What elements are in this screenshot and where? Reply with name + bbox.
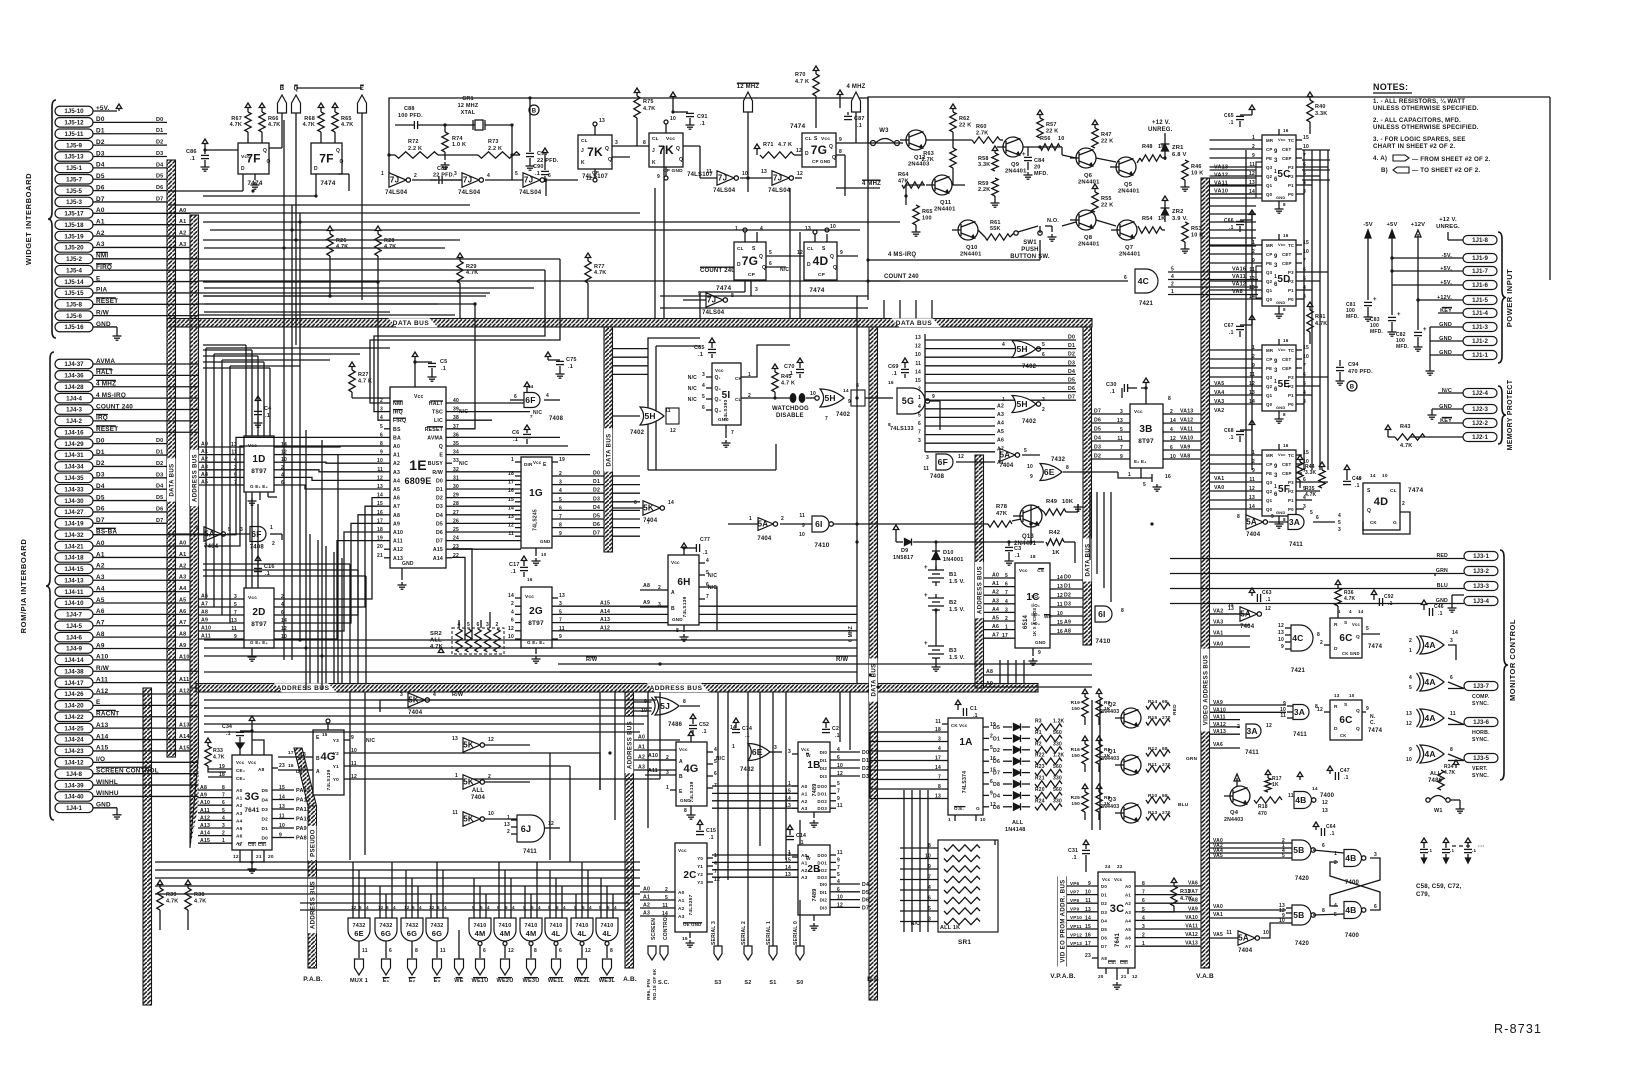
svg-text:Vcc: Vcc — [821, 136, 830, 142]
svg-text:Y2: Y2 — [697, 872, 703, 877]
svg-text:7400: 7400 — [1345, 933, 1360, 939]
svg-text:E₂ E₄: E₂ E₄ — [1134, 459, 1147, 464]
svg-text:R46: R46 — [1191, 164, 1202, 170]
svg-text:5: 5 — [515, 171, 518, 177]
svg-text:4.7K: 4.7K — [230, 122, 242, 128]
svg-text:Q1: Q1 — [1266, 393, 1273, 398]
svg-text:1J2-1: 1J2-1 — [1472, 434, 1488, 441]
svg-text:VA5: VA5 — [1213, 853, 1223, 859]
svg-text:BS: BS — [393, 427, 401, 433]
svg-text:1J4-24: 1J4-24 — [64, 737, 84, 744]
svg-text:1J4-36: 1J4-36 — [64, 373, 84, 380]
svg-text:3: 3 — [1274, 368, 1278, 374]
svg-text:A9: A9 — [643, 600, 650, 606]
svg-text:Q: Q — [1356, 708, 1360, 714]
svg-text:1.5 V.: 1.5 V. — [949, 655, 965, 661]
svg-text:HALT: HALT — [429, 401, 444, 407]
svg-text:DO3: DO3 — [817, 806, 827, 811]
svg-text:8: 8 — [683, 699, 686, 705]
svg-text:C92: C92 — [1384, 594, 1394, 600]
svg-text:W1: W1 — [1434, 808, 1443, 814]
svg-text:74LS04: 74LS04 — [713, 188, 736, 194]
svg-text:C85: C85 — [694, 345, 705, 351]
svg-text:8: 8 — [1317, 632, 1320, 638]
svg-text:D1: D1 — [1068, 343, 1075, 349]
svg-text:A1: A1 — [393, 453, 400, 459]
svg-text:6: 6 — [714, 771, 717, 777]
svg-text:13: 13 — [452, 736, 458, 742]
svg-text:6: 6 — [1274, 387, 1278, 393]
svg-text:A0: A0 — [236, 788, 243, 794]
svg-text:P0: P0 — [1288, 192, 1294, 197]
svg-text:.1: .1 — [1450, 848, 1454, 853]
svg-text:A0: A0 — [801, 853, 808, 859]
svg-text:PA10: PA10 — [296, 817, 310, 823]
svg-text:COUNT 240: COUNT 240 — [700, 268, 735, 274]
svg-text:Q: Q — [833, 265, 837, 271]
svg-text:— FROM SHEET #2 OF 2.: — FROM SHEET #2 OF 2. — [1412, 156, 1491, 163]
svg-text:DI0: DI0 — [820, 882, 828, 887]
svg-text:A1: A1 — [801, 860, 808, 866]
svg-text:R21: R21 — [1035, 776, 1045, 782]
svg-text:1. - ALL RESISTORS, ¼ WATT: 1. - ALL RESISTORS, ¼ WATT — [1373, 98, 1465, 105]
svg-text:R39: R39 — [166, 892, 177, 898]
svg-text:N/C: N/C — [688, 375, 697, 381]
svg-text:A7: A7 — [179, 620, 186, 626]
svg-text:19: 19 — [559, 457, 565, 463]
svg-text:R72: R72 — [408, 139, 419, 145]
svg-text:1: 1 — [948, 817, 951, 823]
svg-text:1J4-13: 1J4-13 — [64, 577, 84, 584]
svg-text:+: + — [1397, 312, 1401, 318]
svg-text:21: 21 — [1121, 974, 1127, 979]
svg-text:9: 9 — [932, 394, 935, 400]
svg-text:PA13: PA13 — [296, 788, 310, 794]
svg-text:9: 9 — [1038, 650, 1041, 656]
svg-text:7: 7 — [530, 414, 533, 419]
svg-text:CET: CET — [1282, 147, 1291, 152]
svg-text:6F: 6F — [938, 457, 948, 467]
svg-text:7408: 7408 — [930, 474, 945, 480]
svg-text:.1: .1 — [709, 835, 714, 841]
svg-text:1: 1 — [1274, 379, 1277, 385]
svg-text:2: 2 — [414, 173, 417, 179]
svg-text:Q0: Q0 — [1266, 402, 1273, 407]
svg-text:D5: D5 — [156, 174, 163, 180]
svg-text:A3: A3 — [1125, 910, 1131, 915]
svg-text:D4: D4 — [156, 162, 164, 168]
svg-text:2: 2 — [488, 774, 491, 780]
svg-text:VA11: VA11 — [1180, 427, 1193, 433]
svg-text:9: 9 — [1274, 359, 1278, 365]
svg-text:A5: A5 — [393, 487, 400, 493]
svg-text:4.7K: 4.7K — [1305, 492, 1317, 498]
svg-text:A3: A3 — [801, 875, 808, 881]
svg-text:Q: Q — [830, 254, 834, 260]
svg-text:5K: 5K — [463, 778, 474, 787]
svg-text:2: 2 — [781, 516, 784, 522]
svg-text:A14: A14 — [433, 556, 443, 562]
svg-text:2N4401: 2N4401 — [934, 207, 956, 213]
svg-text:13: 13 — [915, 335, 921, 341]
svg-text:.1: .1 — [1266, 597, 1271, 603]
svg-text:R54: R54 — [1142, 216, 1153, 222]
svg-text:B: B — [532, 109, 537, 115]
svg-text:16: 16 — [888, 380, 894, 386]
svg-text:D2: D2 — [1068, 352, 1075, 358]
svg-text:4 MS-IRQ: 4 MS-IRQ — [888, 252, 916, 258]
svg-text:Q₃: Q₃ — [715, 397, 722, 403]
svg-text:VA9: VA9 — [1180, 445, 1190, 451]
svg-text:R1: R1 — [1035, 730, 1042, 736]
svg-text:R73: R73 — [488, 139, 499, 145]
svg-text:4.7K: 4.7K — [268, 122, 280, 128]
svg-text:14: 14 — [915, 369, 921, 375]
svg-text:DI1: DI1 — [820, 758, 828, 763]
svg-text:.1: .1 — [265, 413, 270, 419]
svg-text:11: 11 — [1450, 711, 1456, 717]
svg-text:6G: 6G — [407, 929, 417, 938]
svg-text:VA12: VA12 — [1185, 932, 1198, 938]
svg-text:MR: MR — [1266, 243, 1274, 248]
svg-text:C58, C59, C72,: C58, C59, C72, — [1416, 883, 1462, 890]
svg-text:UNREG.: UNREG. — [1148, 127, 1173, 133]
svg-text:A2: A2 — [643, 903, 650, 909]
svg-text:VA8: VA8 — [1188, 898, 1198, 904]
svg-text:10: 10 — [670, 116, 676, 122]
svg-text:CK: CK — [1340, 733, 1346, 738]
svg-text:R9: R9 — [1104, 700, 1111, 706]
svg-text:12: 12 — [351, 905, 357, 910]
svg-text:4: 4 — [1349, 609, 1352, 614]
svg-text:5A: 5A — [758, 520, 769, 529]
svg-text:1J4-27: 1J4-27 — [64, 509, 84, 516]
svg-text:E₁: E₁ — [383, 978, 390, 984]
svg-text:8: 8 — [1283, 517, 1286, 522]
svg-text:Q3: Q3 — [1266, 270, 1273, 275]
svg-text:Y2: Y2 — [333, 751, 339, 757]
svg-text:1J5-14: 1J5-14 — [64, 279, 84, 286]
svg-text:A8: A8 — [201, 610, 208, 616]
svg-text:5B: 5B — [1293, 910, 1304, 920]
svg-text:Q0: Q0 — [1266, 192, 1273, 197]
svg-text:.1: .1 — [857, 123, 862, 129]
svg-text:10: 10 — [1058, 136, 1065, 142]
svg-text:6: 6 — [1322, 843, 1325, 849]
svg-text:Q: Q — [1356, 726, 1360, 732]
svg-text:A3: A3 — [179, 575, 186, 581]
svg-text:D8: D8 — [993, 782, 1000, 788]
svg-text:E: E — [439, 453, 443, 459]
svg-text:3: 3 — [400, 692, 403, 698]
svg-text:VA12: VA12 — [1232, 282, 1246, 288]
svg-text:Q: Q — [676, 146, 680, 152]
svg-text:N/C: N/C — [688, 397, 697, 403]
svg-text:.1: .1 — [703, 550, 708, 556]
svg-text:1: 1 — [918, 395, 921, 401]
svg-text:3: 3 — [788, 749, 791, 755]
svg-text:D5: D5 — [436, 521, 443, 527]
svg-text:MFD.: MFD. — [1370, 329, 1383, 335]
svg-text:D4: D4 — [862, 882, 869, 888]
svg-text:23: 23 — [279, 763, 285, 769]
svg-text:8: 8 — [1066, 465, 1069, 471]
svg-text:C75: C75 — [566, 357, 577, 363]
svg-text:CR1: CR1 — [462, 96, 474, 102]
svg-text:J: J — [581, 148, 584, 154]
svg-text:10 K: 10 K — [1191, 233, 1203, 239]
svg-text:.1: .1 — [702, 729, 707, 735]
svg-text:13: 13 — [805, 226, 811, 232]
svg-text:B1: B1 — [949, 572, 957, 578]
svg-text:S: S — [1367, 488, 1371, 494]
svg-text:1: 1 — [1274, 484, 1277, 490]
svg-text:PA12: PA12 — [296, 798, 310, 804]
svg-text:A1: A1 — [801, 791, 808, 797]
svg-text:E₂: E₂ — [409, 978, 416, 984]
svg-text:A2: A2 — [236, 803, 243, 809]
svg-text:7411: 7411 — [523, 849, 537, 855]
svg-text:.1: .1 — [1015, 553, 1020, 559]
svg-text:— TO SHEET #2 OF 2.: — TO SHEET #2 OF 2. — [1412, 167, 1480, 174]
svg-text:MR: MR — [1266, 453, 1274, 458]
svg-text:12: 12 — [714, 877, 720, 883]
svg-text:GND: GND — [540, 539, 550, 544]
svg-text:R40: R40 — [1315, 104, 1326, 110]
svg-text:VA10: VA10 — [1180, 436, 1193, 442]
svg-text:A2: A2 — [801, 799, 808, 805]
svg-text:D7: D7 — [1068, 395, 1075, 401]
svg-text:Y3: Y3 — [333, 738, 339, 744]
svg-text:S.C.: S.C. — [658, 980, 670, 986]
svg-text:E₃: E₃ — [434, 978, 441, 984]
svg-text:Q2: Q2 — [1266, 279, 1273, 284]
svg-text:CET: CET — [1282, 462, 1291, 467]
svg-text:A8: A8 — [393, 513, 400, 519]
svg-text:1J4-9: 1J4-9 — [66, 646, 82, 653]
svg-text:12: 12 — [958, 454, 964, 460]
svg-text:A15: A15 — [200, 838, 210, 844]
svg-text:16: 16 — [1165, 474, 1171, 480]
svg-text:R25: R25 — [1071, 795, 1081, 801]
svg-text:D0: D0 — [1101, 884, 1107, 889]
svg-text:R15: R15 — [1148, 715, 1158, 721]
svg-text:1K: 1K — [1104, 753, 1111, 759]
svg-text:D4: D4 — [993, 793, 1000, 799]
svg-text:11: 11 — [362, 948, 368, 954]
svg-text:D4: D4 — [1094, 436, 1101, 442]
svg-text:7411: 7411 — [1289, 542, 1303, 548]
svg-text:E: E — [316, 735, 320, 741]
svg-text:Vcc: Vcc — [1278, 452, 1286, 457]
svg-text:4.7K: 4.7K — [1400, 443, 1412, 449]
svg-text:ZR2: ZR2 — [1172, 209, 1184, 215]
svg-text:D.B: D.B — [867, 976, 879, 983]
svg-text:A7: A7 — [393, 504, 400, 510]
svg-text:.1: .1 — [698, 352, 703, 358]
svg-text:D4: D4 — [1068, 369, 1075, 375]
svg-text:2N4403: 2N4403 — [1224, 817, 1243, 823]
svg-text:7474: 7474 — [1408, 487, 1423, 494]
svg-text:16: 16 — [1283, 128, 1289, 133]
svg-text:D3: D3 — [261, 807, 268, 813]
svg-text:S0: S0 — [796, 980, 803, 986]
svg-text:1J5-9: 1J5-9 — [66, 142, 82, 149]
svg-text:6J: 6J — [521, 824, 531, 834]
svg-text:D6: D6 — [1094, 418, 1101, 424]
svg-text:A3: A3 — [236, 811, 243, 817]
svg-text:4: 4 — [444, 905, 447, 910]
svg-text:R10: R10 — [1148, 793, 1158, 799]
svg-text:A0: A0 — [1125, 884, 1131, 889]
svg-text:WE: WE — [454, 978, 463, 984]
svg-text:DI2: DI2 — [820, 898, 828, 903]
svg-text:9: 9 — [837, 857, 840, 863]
svg-text:7474: 7474 — [809, 287, 824, 294]
svg-text:DI3: DI3 — [820, 905, 828, 910]
svg-text:12: 12 — [1406, 721, 1412, 727]
svg-text:D9: D9 — [901, 548, 908, 554]
svg-text:A6: A6 — [393, 496, 400, 502]
svg-text:A0: A0 — [638, 735, 645, 741]
svg-text:1J5-2: 1J5-2 — [66, 256, 82, 263]
svg-text:Q0: Q0 — [1266, 507, 1273, 512]
svg-text:PE: PE — [1266, 261, 1272, 266]
svg-text:D6: D6 — [1101, 936, 1107, 941]
svg-text:1A: 1A — [959, 737, 972, 748]
svg-text:A10: A10 — [648, 753, 658, 759]
svg-text:74LS04: 74LS04 — [768, 188, 791, 194]
svg-text:3: 3 — [1450, 638, 1453, 644]
svg-text:A14: A14 — [200, 831, 210, 837]
svg-text:1J5-6: 1J5-6 — [66, 313, 82, 320]
svg-text:PUSH: PUSH — [1021, 247, 1038, 253]
svg-text:A0: A0 — [201, 442, 208, 448]
svg-text:4M: 4M — [475, 929, 486, 938]
svg-text:14: 14 — [668, 500, 674, 506]
svg-text:7420: 7420 — [1295, 876, 1310, 882]
svg-text:R42: R42 — [1049, 530, 1060, 536]
svg-text:3C: 3C — [1110, 903, 1124, 915]
svg-text:I/O₃: I/O₃ — [1031, 612, 1040, 617]
svg-text:ALL: ALL — [472, 788, 484, 794]
svg-text:10: 10 — [1382, 473, 1388, 479]
svg-text:1J4-33: 1J4-33 — [64, 486, 84, 493]
svg-text:WE2U: WE2U — [497, 978, 514, 984]
svg-text:A5: A5 — [179, 597, 186, 603]
svg-text:D7: D7 — [1094, 409, 1101, 415]
svg-text:4L: 4L — [577, 929, 586, 938]
svg-text:4.7K: 4.7K — [166, 899, 178, 905]
svg-text:BLU: BLU — [1178, 802, 1189, 808]
svg-text:6F: 6F — [251, 529, 261, 539]
svg-text:CL: CL — [1390, 488, 1397, 494]
svg-text:5A: 5A — [1238, 934, 1249, 943]
svg-text:.1: .1 — [1072, 855, 1077, 861]
svg-text:3: 3 — [1274, 158, 1278, 164]
svg-text:20: 20 — [1034, 165, 1041, 171]
svg-text:4: 4 — [918, 404, 921, 410]
svg-text:6: 6 — [389, 948, 392, 954]
svg-text:GRN: GRN — [1186, 756, 1198, 762]
svg-text:1J4-18: 1J4-18 — [64, 555, 84, 562]
svg-text:SERIAL 1: SERIAL 1 — [766, 921, 772, 945]
svg-text:-5V: -5V — [1363, 222, 1373, 228]
svg-text:C15: C15 — [706, 828, 716, 834]
svg-text:W3: W3 — [879, 128, 889, 134]
svg-text:VA1: VA1 — [1213, 912, 1223, 918]
svg-text:.1: .1 — [511, 569, 516, 575]
svg-text:Vcc: Vcc — [236, 760, 245, 765]
svg-text:6I: 6I — [815, 519, 823, 529]
svg-text:D0: D0 — [156, 438, 163, 444]
svg-text:1J1-2: 1J1-2 — [1472, 338, 1488, 345]
svg-text:3: 3 — [486, 622, 489, 628]
svg-text:CP: CP — [1266, 252, 1273, 257]
svg-text:7474: 7474 — [320, 180, 335, 187]
svg-text:CEP: CEP — [1282, 471, 1292, 476]
svg-text:10: 10 — [1278, 637, 1284, 643]
svg-text:1J5-18: 1J5-18 — [64, 222, 84, 229]
svg-text:4A: 4A — [1424, 713, 1435, 723]
svg-text:18: 18 — [1030, 554, 1036, 560]
svg-text:16: 16 — [1283, 443, 1289, 448]
svg-text:5: 5 — [1409, 685, 1412, 691]
svg-text:P3: P3 — [1288, 480, 1294, 485]
svg-text:CK: CK — [1370, 520, 1377, 525]
svg-text:S: S — [814, 136, 818, 142]
svg-text:.1: .1 — [568, 364, 573, 370]
svg-text:8T97: 8T97 — [528, 620, 544, 627]
svg-text:1K: 1K — [1104, 706, 1111, 712]
svg-text:S1: S1 — [769, 980, 776, 986]
svg-text:14: 14 — [1358, 609, 1364, 614]
svg-text:A8: A8 — [258, 767, 265, 773]
svg-text:B: B — [1350, 385, 1355, 391]
svg-text:A2: A2 — [179, 231, 186, 237]
svg-text:VA6: VA6 — [1188, 881, 1198, 887]
svg-text:A2: A2 — [201, 457, 208, 463]
svg-text:11: 11 — [915, 361, 921, 367]
svg-text:TC: TC — [1288, 138, 1295, 143]
svg-text:5: 5 — [467, 622, 470, 628]
svg-text:330: 330 — [1053, 741, 1062, 747]
svg-text:A9: A9 — [393, 521, 400, 527]
svg-text:Vcc: Vcc — [1278, 137, 1286, 142]
svg-text:9: 9 — [1274, 254, 1278, 260]
svg-text:.1: .1 — [535, 171, 540, 177]
svg-text:A2: A2 — [393, 461, 400, 467]
svg-text:D1: D1 — [862, 758, 869, 764]
svg-text:1J4-2: 1J4-2 — [66, 418, 82, 425]
svg-text:A14: A14 — [600, 609, 610, 615]
svg-text:6: 6 — [1124, 275, 1127, 281]
svg-text:P3: P3 — [1288, 375, 1294, 380]
svg-text:D7: D7 — [436, 539, 443, 545]
svg-text:4: 4 — [393, 905, 396, 910]
svg-text:560: 560 — [1053, 730, 1062, 736]
svg-text:7K: 7K — [587, 145, 603, 159]
svg-text:Vcc: Vcc — [715, 368, 724, 373]
svg-text:2.2 K: 2.2 K — [488, 146, 502, 152]
svg-text:5H: 5H — [644, 411, 655, 421]
svg-text:1J5-11: 1J5-11 — [65, 131, 84, 138]
svg-text:C4: C4 — [264, 406, 272, 412]
svg-text:4: 4 — [538, 905, 541, 910]
svg-text:6: 6 — [769, 261, 772, 267]
svg-text:UNREG.: UNREG. — [1436, 224, 1460, 230]
svg-text:A0: A0 — [179, 541, 186, 547]
